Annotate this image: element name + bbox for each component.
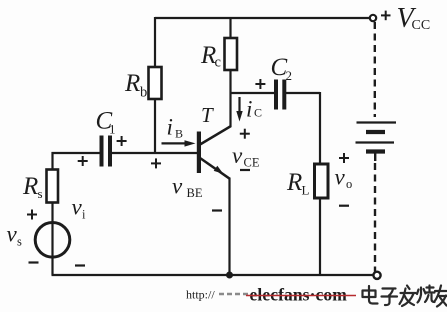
wire base right (C1 to base) <box>112 152 198 154</box>
wire C2 branch left <box>230 92 275 94</box>
wire base left (to C1) <box>52 152 101 154</box>
label C1 <box>96 108 116 137</box>
svg-text:elecfans·com: elecfans·com <box>250 285 348 305</box>
watermark elecfans.com <box>246 285 356 305</box>
char dian <box>363 286 378 304</box>
label T <box>201 103 214 127</box>
minus sign vCE <box>240 169 250 171</box>
resistor Rb <box>149 67 162 99</box>
current arrow iC <box>236 97 242 122</box>
label +VCC <box>381 3 430 34</box>
label vo <box>335 165 353 192</box>
svg-text:v: v <box>335 165 346 190</box>
label Rb <box>124 70 147 101</box>
plus sign C1 <box>117 136 127 146</box>
svg-text:v: v <box>7 222 18 247</box>
watermark chinese characters <box>363 286 447 307</box>
watermark gray dashes <box>219 293 250 296</box>
terminal +VCC <box>370 15 376 21</box>
minus sign vBE <box>212 209 222 211</box>
resistor Rs <box>47 170 59 203</box>
wire bottom rail <box>52 274 374 276</box>
plus sign vo <box>339 153 349 163</box>
minus sign vo <box>339 205 349 207</box>
transistor T base bar <box>197 132 201 174</box>
label vi <box>72 195 87 222</box>
wire C2 branch right to RL <box>286 92 320 94</box>
svg-text:1: 1 <box>109 122 116 137</box>
plus sign vi <box>78 156 88 166</box>
svg-text:C: C <box>254 106 262 120</box>
capacitor C2 <box>274 80 286 110</box>
svg-text:i: i <box>82 208 86 222</box>
svg-text:BE: BE <box>187 186 203 200</box>
label iB <box>167 115 184 141</box>
transistor T collector lead <box>200 126 231 145</box>
resistor Rc <box>225 38 238 70</box>
svg-text:R: R <box>22 173 38 200</box>
svg-text:v: v <box>232 143 243 168</box>
plus sign C2 <box>255 79 265 89</box>
label vCE <box>232 143 260 170</box>
svg-text:o: o <box>346 177 352 191</box>
svg-text:CC: CC <box>412 18 431 33</box>
svg-text:L: L <box>302 183 310 198</box>
battery VCC <box>356 123 397 162</box>
label vs <box>7 222 23 249</box>
label Rs <box>22 173 43 201</box>
wire emitter vertical <box>228 178 230 277</box>
label C2 <box>271 54 293 83</box>
current arrow iB <box>162 140 196 146</box>
svg-text:s: s <box>17 235 22 249</box>
label RL <box>286 169 310 198</box>
plus sign vs <box>27 210 37 220</box>
svg-text:http://: http:// <box>186 288 215 302</box>
svg-text:2: 2 <box>286 68 293 83</box>
terminal bottom right <box>373 272 380 279</box>
svg-text:R: R <box>124 70 140 97</box>
svg-text:c: c <box>215 55 221 71</box>
wire RL branch <box>319 92 321 275</box>
svg-text:v: v <box>72 195 83 220</box>
svg-text:b: b <box>140 85 147 101</box>
plus sign vCE <box>240 129 250 139</box>
svg-text:CE: CE <box>244 156 260 170</box>
wire top rail <box>155 17 370 19</box>
minus sign vs <box>29 261 39 263</box>
capacitor C1 <box>100 136 113 167</box>
label iC <box>246 97 262 122</box>
wire left branch (vs/Rs) <box>51 152 53 275</box>
wire collector branch <box>229 17 231 127</box>
svg-text:v: v <box>172 174 183 199</box>
svg-text:R: R <box>286 169 302 196</box>
wire Rb branch <box>154 17 156 153</box>
minus sign vi <box>75 264 85 266</box>
char you <box>435 286 447 307</box>
char zi <box>382 289 398 306</box>
char shao <box>417 286 435 303</box>
source vs circle <box>35 223 70 258</box>
wire dashed VCC to battery <box>374 22 376 117</box>
wire dashed battery to bottom terminal <box>374 163 376 272</box>
node emitter-ground junction <box>226 272 233 279</box>
plus sign vBE <box>151 158 161 168</box>
label vBE <box>172 174 203 201</box>
transistor T emitter lead <box>200 158 230 179</box>
svg-text:i: i <box>167 115 173 140</box>
resistor RL <box>315 164 329 198</box>
svg-text:s: s <box>38 186 43 201</box>
svg-text:T: T <box>201 103 214 127</box>
watermark http text <box>186 288 215 302</box>
svg-text:i: i <box>246 97 252 122</box>
svg-text:B: B <box>175 127 183 141</box>
char fa <box>400 286 416 307</box>
label Rc <box>200 42 221 71</box>
